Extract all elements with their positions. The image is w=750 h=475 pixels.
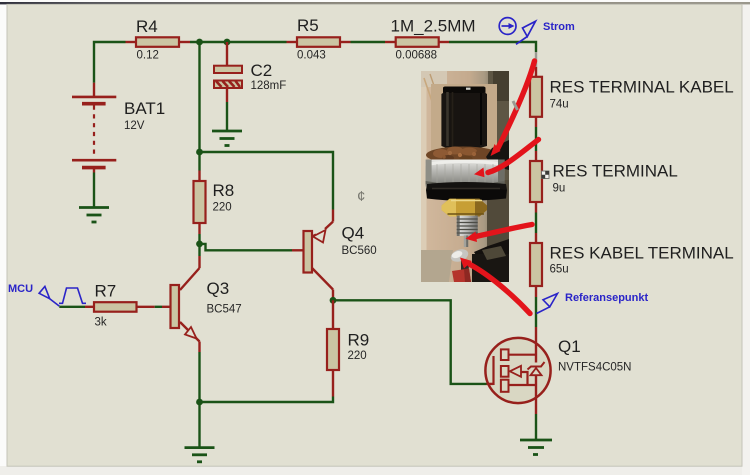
resistor R4 <box>136 37 179 47</box>
svg-text:¢: ¢ <box>357 188 365 205</box>
MOSFET Q1 <box>485 327 631 414</box>
anchor icon <box>542 171 550 179</box>
red arrow to terminal body <box>488 140 539 173</box>
svg-text:C2: C2 <box>251 61 273 80</box>
svg-text:Q1: Q1 <box>558 337 581 356</box>
red arrow to stud <box>476 225 532 237</box>
resistor RES TERMINAL KABEL <box>530 77 734 127</box>
knob <box>441 87 487 151</box>
node A (rail / R8 branch) <box>196 39 203 46</box>
svg-text:R4: R4 <box>136 17 158 36</box>
ground (battery) <box>79 208 109 223</box>
svg-text:0.043: 0.043 <box>297 50 326 62</box>
ground (Q3 emitter) <box>185 448 215 462</box>
wire: R8 to node D <box>198 234 200 244</box>
red arrow to reference point <box>470 265 530 314</box>
pin tip <box>464 236 468 248</box>
resistor 1M_2.5MM <box>396 37 439 47</box>
node Referansepunkt label <box>537 294 558 314</box>
svg-text:74u: 74u <box>550 99 569 111</box>
resistor RES KABEL TERMINAL <box>530 233 734 297</box>
photo of terminal post <box>421 71 509 282</box>
node D (R8 / Q3 collector / Q4 base) <box>196 241 203 248</box>
MCU input label <box>39 286 86 306</box>
wire: MCU to R7 <box>59 306 85 308</box>
svg-text:BC547: BC547 <box>207 304 242 316</box>
clip dark cone <box>474 239 509 274</box>
resistor RES TERMINAL <box>530 151 678 213</box>
lead RZ1 right <box>439 41 449 43</box>
node E (Q4 collector / R9 / gate wire) <box>330 297 337 304</box>
red part <box>452 269 471 283</box>
wire: R7 to Q3 base <box>155 306 162 308</box>
svg-text:R8: R8 <box>213 181 235 200</box>
silver disc tip <box>449 247 470 264</box>
wire between RES2 and RES3 <box>535 213 537 234</box>
black cable right <box>486 140 509 170</box>
wire: Q1 source to ground <box>535 414 537 440</box>
wire RES3 to node Referansepunkt <box>535 297 537 327</box>
svg-text:12V: 12V <box>124 120 145 132</box>
node B (rail / C2 branch) <box>224 39 231 46</box>
svg-text:Strom: Strom <box>543 21 575 33</box>
svg-text:BAT1: BAT1 <box>124 99 165 118</box>
wire: node F to ground <box>198 402 200 448</box>
svg-text:Referansepunkt: Referansepunkt <box>565 292 648 304</box>
lead R5 right <box>340 41 351 43</box>
lead R5 left <box>287 41 298 43</box>
lead R4 left <box>126 41 137 43</box>
lead R4 right <box>179 41 190 43</box>
copper strands <box>426 147 500 164</box>
black flange rings <box>426 182 507 193</box>
transistor Q3 <box>171 256 242 352</box>
svg-text:3k: 3k <box>95 317 107 329</box>
svg-text:0.00688: 0.00688 <box>396 50 438 62</box>
silver collar <box>426 160 505 185</box>
bottom left light area <box>421 250 453 282</box>
svg-text:NVTFS4C05N: NVTFS4C05N <box>558 362 632 374</box>
wire: R9 bottom to node F <box>200 397 334 403</box>
wire: Q3 collector to node D <box>198 244 200 256</box>
wire: Q3 emitter down to node F <box>198 352 200 402</box>
wire: battery to ground <box>93 173 95 208</box>
transistor Q4 <box>292 210 377 301</box>
svg-text:MCU: MCU <box>8 283 33 295</box>
top window edge line <box>0 2 750 4</box>
svg-text:220: 220 <box>213 202 232 214</box>
wire: node C to Q4 emitter column <box>200 152 334 210</box>
svg-text:Q4: Q4 <box>342 224 365 243</box>
resistor R9 <box>327 300 369 396</box>
wire: C2 to ground <box>226 102 228 131</box>
node F (emitter / R9 return / ground) <box>196 399 203 406</box>
stud <box>457 216 478 237</box>
svg-text:R9: R9 <box>348 331 370 350</box>
resistor R7 <box>85 282 155 329</box>
wire: R5 to RZ1 <box>351 41 386 43</box>
svg-text:R7: R7 <box>95 282 117 301</box>
svg-text:128mF: 128mF <box>251 80 287 92</box>
pin marker at corner <box>535 52 537 67</box>
gray dash on arrow <box>513 101 518 110</box>
svg-text:9u: 9u <box>553 183 566 195</box>
svg-text:R5: R5 <box>297 16 319 35</box>
current probe Strom <box>499 18 535 45</box>
wire: node E to MOSFET gate <box>333 300 487 384</box>
svg-text:RES KABEL TERMINAL: RES KABEL TERMINAL <box>550 244 734 263</box>
wire: top rail battery corner to R4 <box>94 42 126 83</box>
wire: R4 right lead to R5 <box>190 41 287 43</box>
svg-text:Q3: Q3 <box>207 279 230 298</box>
resistor R5 <box>297 37 340 47</box>
tan pillar behind knob <box>431 84 497 160</box>
brass nut <box>442 199 488 217</box>
wire: node D to Q4 base <box>200 244 293 250</box>
svg-text:RES TERMINAL: RES TERMINAL <box>553 162 678 181</box>
resistor R8 <box>194 171 235 235</box>
ground (C2) <box>212 131 242 146</box>
svg-text:65u: 65u <box>550 264 569 276</box>
svg-text:RES TERMINAL KABEL: RES TERMINAL KABEL <box>550 78 734 97</box>
ground (Q1) <box>520 440 552 455</box>
svg-text:220: 220 <box>348 350 367 362</box>
svg-text:BC560: BC560 <box>342 245 377 257</box>
lead RZ1 left <box>385 41 396 43</box>
capacitor C2 <box>214 42 286 102</box>
red arrow to terminal collar <box>498 61 535 148</box>
wire between RES1 and RES2 <box>535 127 537 151</box>
wire: RZ1 to top-right corner <box>449 42 536 52</box>
dark pin below <box>461 259 470 272</box>
svg-text:0.12: 0.12 <box>137 50 159 62</box>
node C (R8 / Q4 emitter feed) <box>196 149 203 156</box>
svg-text:1M_2.5MM: 1M_2.5MM <box>391 17 476 36</box>
lead into RES1 <box>535 67 537 77</box>
battery BAT1 <box>72 83 165 173</box>
wire: rail node down to R8 <box>198 42 200 171</box>
